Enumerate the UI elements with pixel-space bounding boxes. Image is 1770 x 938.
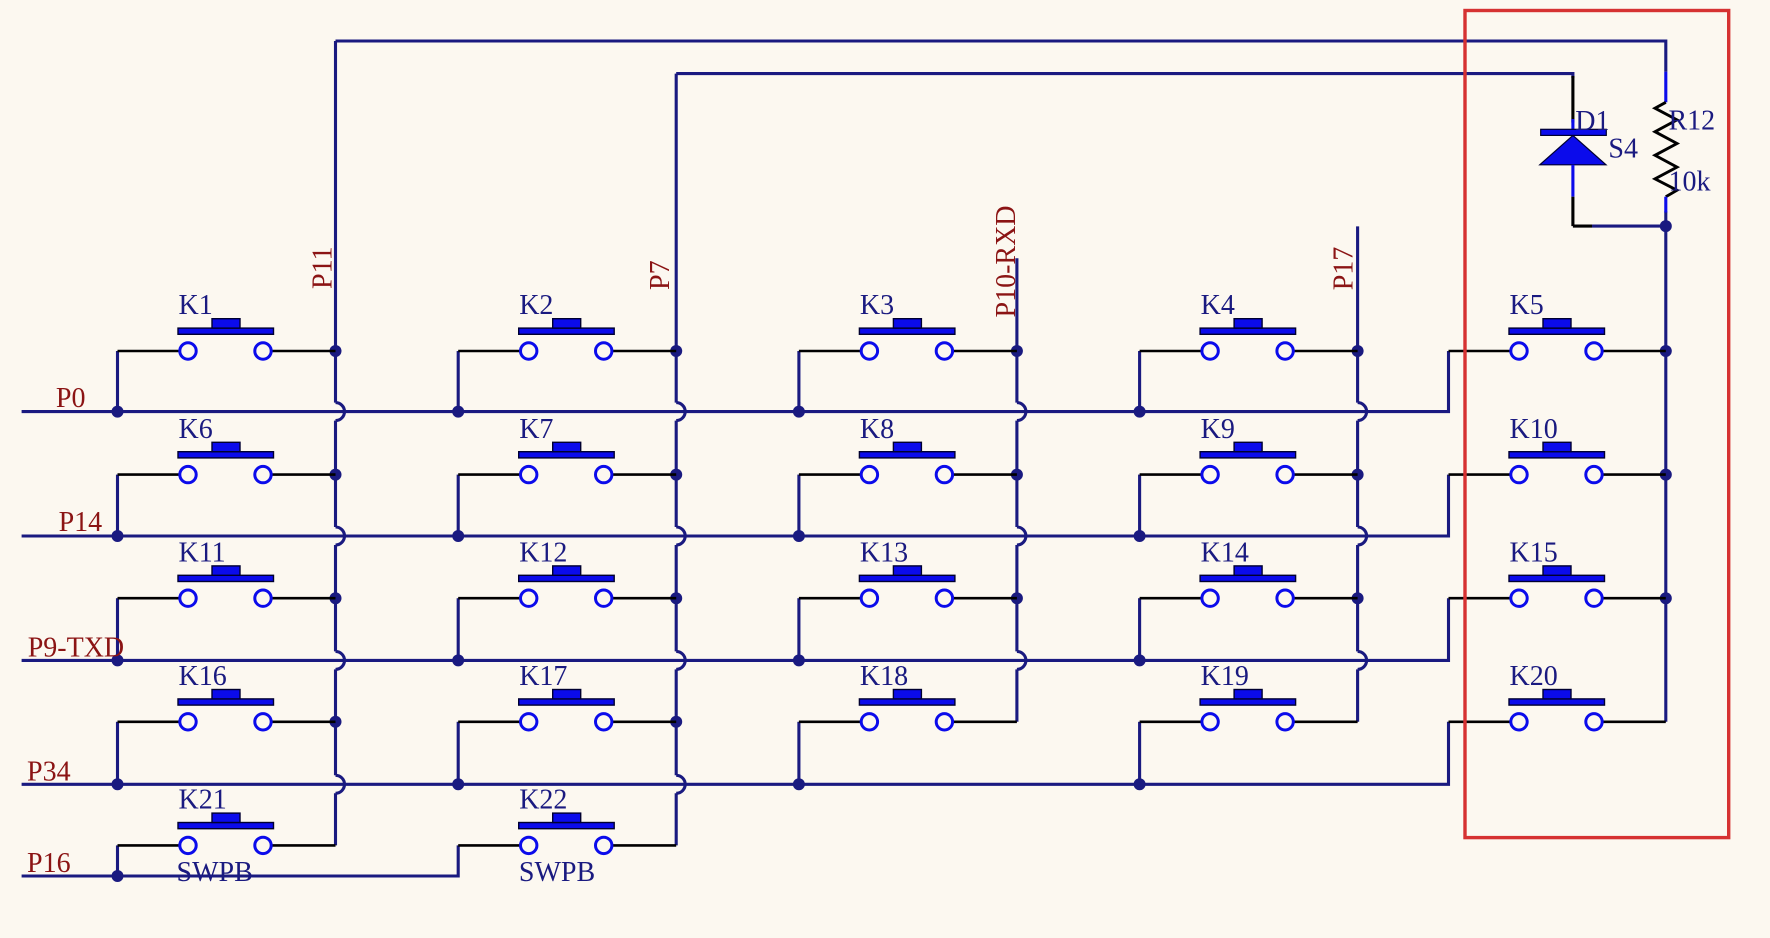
push button K19 bbox=[1140, 661, 1358, 730]
wire: R12 bottom lead bbox=[1664, 197, 1667, 213]
svg-text:K1: K1 bbox=[179, 290, 213, 321]
junction: diode branch joins R12 branch bbox=[1660, 220, 1672, 232]
wire hop (no connection) at x=1016.9 y=411.6 bbox=[1017, 403, 1026, 421]
push button K5 bbox=[1449, 290, 1666, 359]
junction: K2 lead on row P0 bbox=[452, 406, 464, 418]
wire: column net P10-RXD vertical bbox=[1015, 258, 1018, 722]
svg-text:P0: P0 bbox=[56, 383, 86, 414]
junction: right pin of button col5 row1 on vertical bbox=[1660, 345, 1672, 357]
junction: K8 lead on row P14 bbox=[793, 530, 805, 542]
junction: right pin of button col4 row1 on vertical bbox=[1352, 345, 1364, 357]
junction: right pin of button col1 row3 on vertical bbox=[330, 592, 342, 604]
wire: K7 left lead down to P14 bbox=[457, 475, 460, 536]
push button K14 bbox=[1140, 537, 1358, 606]
svg-text:K21: K21 bbox=[179, 785, 227, 816]
junction: K18 lead on row P34 bbox=[793, 778, 805, 790]
wire hop (no connection) at x=676.2 y=536.0 bbox=[676, 527, 685, 545]
push button K16 bbox=[118, 661, 336, 730]
svg-text:K20: K20 bbox=[1510, 661, 1558, 692]
svg-text:K13: K13 bbox=[860, 537, 908, 568]
svg-text:D1: D1 bbox=[1575, 106, 1609, 137]
svg-text:R12: R12 bbox=[1669, 105, 1716, 136]
wire hop (no connection) at x=1016.9 y=536.0 bbox=[1017, 527, 1026, 545]
wire hop (no connection) at x=335.5 y=536.0 bbox=[336, 527, 345, 545]
wire: K3 left lead down to P0 bbox=[797, 351, 800, 412]
svg-text:P14: P14 bbox=[59, 507, 103, 538]
junction: K19 lead on row P34 bbox=[1134, 778, 1146, 790]
wire hop (no connection) at x=1357.6 y=660.4 bbox=[1358, 651, 1367, 669]
svg-text:SWPB: SWPB bbox=[177, 857, 253, 888]
wire: K13 left lead down to P9-TXD bbox=[797, 598, 800, 660]
wire: row net P34 bbox=[22, 722, 1449, 785]
push button K6 bbox=[118, 414, 336, 483]
svg-text:K15: K15 bbox=[1510, 537, 1558, 568]
svg-text:K14: K14 bbox=[1201, 537, 1249, 568]
svg-text:K7: K7 bbox=[519, 414, 553, 445]
svg-text:K6: K6 bbox=[179, 414, 213, 445]
junction: right pin of button col4 row2 on vertical bbox=[1352, 469, 1364, 481]
svg-text:K2: K2 bbox=[519, 290, 553, 321]
junction: right pin of button col3 row2 on vertical bbox=[1011, 469, 1023, 481]
push button K1 bbox=[118, 290, 336, 359]
wire: column net P17 vertical bbox=[1356, 226, 1359, 721]
svg-text:P9-TXD: P9-TXD bbox=[28, 632, 124, 663]
junction: right pin of button col2 row1 on vertical bbox=[670, 345, 682, 357]
svg-text:P16: P16 bbox=[27, 848, 71, 879]
svg-text:P10-RXD: P10-RXD bbox=[991, 205, 1022, 317]
junction: right pin of button col3 row3 on vertical bbox=[1011, 592, 1023, 604]
push button K18 bbox=[799, 661, 1017, 730]
push button K21 bbox=[118, 785, 336, 888]
wire hop (no connection) at x=1016.9 y=660.4 bbox=[1017, 651, 1026, 669]
wire: K8 left lead down to P14 bbox=[797, 475, 800, 536]
push button K17 bbox=[458, 661, 676, 730]
wire hop (no connection) at x=676.2 y=784.3 bbox=[676, 775, 685, 793]
wire: second bus from column P7 to diode D1 branch bbox=[676, 74, 1573, 78]
junction: right pin of button col1 row2 on vertical bbox=[330, 469, 342, 481]
wire hop (no connection) at x=1357.6 y=536.0 bbox=[1358, 527, 1367, 545]
junction: right pin of button col4 row3 on vertical bbox=[1352, 592, 1364, 604]
wire: K14 left lead down to P9-TXD bbox=[1138, 598, 1141, 660]
wire: row net P16 bbox=[22, 845, 459, 876]
svg-text:K10: K10 bbox=[1510, 414, 1558, 445]
wire: K11 left lead down to P9-TXD bbox=[116, 598, 119, 660]
junction: right pin of button col2 row4 on vertical bbox=[670, 716, 682, 728]
wire: K17 left lead down to P34 bbox=[457, 722, 460, 785]
push button K11 bbox=[118, 537, 336, 606]
wire: column net P7 vertical bbox=[675, 74, 678, 846]
push button K9 bbox=[1140, 414, 1358, 483]
wire hop (no connection) at x=335.5 y=784.3 bbox=[336, 775, 345, 793]
push button K12 bbox=[458, 537, 676, 606]
junction: K9 lead on row P14 bbox=[1134, 530, 1146, 542]
svg-text:P7: P7 bbox=[645, 260, 676, 290]
svg-text:K3: K3 bbox=[860, 290, 894, 321]
svg-text:K19: K19 bbox=[1201, 661, 1249, 692]
wire: K1 left lead down to P0 bbox=[116, 351, 119, 412]
svg-text:K4: K4 bbox=[1201, 290, 1235, 321]
wire: K18 left lead down to P34 bbox=[797, 722, 800, 785]
junction: K14 lead on row P9-TXD bbox=[1134, 654, 1146, 666]
wire hop (no connection) at x=335.5 y=411.6 bbox=[336, 403, 345, 421]
junction: right pin of button col5 row3 on vertical bbox=[1660, 592, 1672, 604]
junction: K16 lead on row P34 bbox=[112, 778, 124, 790]
wire: R12 top lead bbox=[1664, 72, 1667, 103]
svg-text:K22: K22 bbox=[519, 785, 567, 816]
wire: row net P9-TXD bbox=[22, 598, 1449, 660]
wire: row net P14 bbox=[22, 475, 1449, 536]
svg-text:S4: S4 bbox=[1608, 134, 1638, 165]
svg-text:K17: K17 bbox=[519, 661, 567, 692]
wire: K9 left lead down to P14 bbox=[1138, 475, 1141, 536]
wire: top bus from column P11 to R12 branch bbox=[336, 41, 1666, 72]
svg-text:10k: 10k bbox=[1669, 167, 1711, 198]
junction: K12 lead on row P9-TXD bbox=[452, 654, 464, 666]
svg-text:K8: K8 bbox=[860, 414, 894, 445]
junction: right pin of button col1 row1 on vertical bbox=[330, 345, 342, 357]
junction: K13 lead on row P9-TXD bbox=[793, 654, 805, 666]
junction: K21 lead on row P16 bbox=[112, 870, 124, 882]
push button K20 bbox=[1449, 661, 1666, 730]
junction: right pin of button col3 row1 on vertical bbox=[1011, 345, 1023, 357]
junction: K1 lead on row P0 bbox=[112, 406, 124, 418]
svg-text:P34: P34 bbox=[27, 757, 71, 788]
junction: right pin of button col2 row2 on vertical bbox=[670, 469, 682, 481]
resistor R12 10k bbox=[1655, 102, 1677, 196]
wire: K4 left lead down to P0 bbox=[1138, 351, 1141, 412]
svg-text:K16: K16 bbox=[179, 661, 227, 692]
svg-text:K12: K12 bbox=[519, 537, 567, 568]
svg-text:P11: P11 bbox=[308, 246, 339, 289]
wire hop (no connection) at x=1357.6 y=411.6 bbox=[1358, 403, 1367, 421]
wire: K19 left lead down to P34 bbox=[1138, 722, 1141, 785]
wire: diode bottom pin to junction bbox=[1571, 197, 1574, 226]
diode D1 (S4) bbox=[1540, 129, 1606, 196]
junction: K4 lead on row P0 bbox=[1134, 406, 1146, 418]
junction: right pin of button col1 row4 on vertical bbox=[330, 716, 342, 728]
wire: K6 left lead down to P14 bbox=[116, 475, 119, 536]
wire: right branch vertical below R12 bbox=[1664, 211, 1667, 721]
push button K15 bbox=[1449, 537, 1666, 606]
junction: K11 lead on row P9-TXD bbox=[112, 654, 124, 666]
svg-text:K18: K18 bbox=[860, 661, 908, 692]
wire: diode top pin bbox=[1571, 76, 1574, 123]
junction: right pin of button col2 row3 on vertical bbox=[670, 592, 682, 604]
push button K3 bbox=[799, 290, 1017, 359]
wire: K21 left lead down to P16 bbox=[116, 845, 119, 876]
push button K13 bbox=[799, 537, 1017, 606]
svg-text:K11: K11 bbox=[179, 537, 226, 568]
push button K10 bbox=[1449, 414, 1666, 483]
push button K4 bbox=[1140, 290, 1358, 359]
wire hop (no connection) at x=335.5 y=660.4 bbox=[336, 651, 345, 669]
junction: K7 lead on row P14 bbox=[452, 530, 464, 542]
push button K2 bbox=[458, 290, 676, 359]
wire: row net P0 bbox=[22, 351, 1449, 412]
red selection rectangle bbox=[1465, 11, 1729, 838]
svg-text:K9: K9 bbox=[1201, 414, 1235, 445]
svg-text:K5: K5 bbox=[1510, 290, 1544, 321]
junction: K3 lead on row P0 bbox=[793, 406, 805, 418]
wire: K16 left lead down to P34 bbox=[116, 722, 119, 785]
svg-text:P17: P17 bbox=[1329, 247, 1360, 291]
junction: K17 lead on row P34 bbox=[452, 778, 464, 790]
wire hop (no connection) at x=676.2 y=411.6 bbox=[676, 403, 685, 421]
wire: K12 left lead down to P9-TXD bbox=[457, 598, 460, 660]
junction: right pin of button col5 row2 on vertical bbox=[1660, 469, 1672, 481]
push button K22 bbox=[458, 785, 676, 888]
svg-text:SWPB: SWPB bbox=[519, 857, 595, 888]
wire: K2 left lead down to P0 bbox=[457, 351, 460, 412]
wire: column net P11 vertical bbox=[334, 41, 337, 845]
wire hop (no connection) at x=676.2 y=660.4 bbox=[676, 651, 685, 669]
junction: K6 lead on row P14 bbox=[112, 530, 124, 542]
push button K7 bbox=[458, 414, 676, 483]
push button K8 bbox=[799, 414, 1017, 483]
